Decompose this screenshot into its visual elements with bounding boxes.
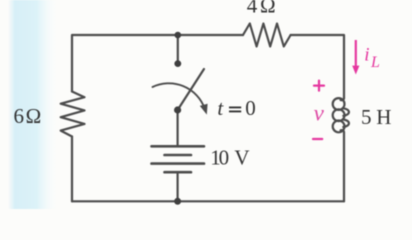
battery B1 plate long bottom — [152, 162, 205, 165]
svg-text:V: V — [234, 146, 249, 170]
wire right lower below inductor — [343, 133, 345, 201]
svg-text:L: L — [370, 54, 380, 71]
svg-text:i: i — [364, 45, 369, 66]
inductor L1 loop 2 — [333, 109, 345, 121]
svg-text:0: 0 — [245, 96, 256, 120]
battery B1 plate short — [165, 154, 192, 157]
switch arrow head — [200, 104, 208, 115]
wire top-left: left upper wire + top wire to R 4ohm — [72, 35, 243, 92]
node dot switch upper terminal — [174, 60, 181, 67]
switch blade — [178, 69, 204, 110]
svg-text:Ω: Ω — [260, 0, 276, 18]
svg-text:0: 0 — [219, 146, 230, 170]
inductor L1 exit curve — [341, 130, 344, 133]
wire switch top stub — [177, 35, 179, 64]
svg-text:v: v — [314, 100, 325, 125]
wire battery bottom lead — [177, 172, 179, 201]
node dot switch lower terminal — [174, 106, 181, 113]
switch arc — [153, 83, 205, 108]
wire left lower below R 6ohm — [71, 137, 73, 202]
inductor L1 crossover 2 — [343, 120, 349, 128]
wire battery top lead — [177, 110, 179, 146]
node dot bottom junction — [174, 198, 181, 205]
wire top-right + right wire to inductor — [291, 35, 344, 98]
battery B1 plate short bottom — [165, 171, 192, 174]
inductor L1 crossover 1 — [343, 108, 349, 116]
svg-text:H: H — [376, 105, 391, 129]
current arrow iL — [355, 40, 357, 67]
wire bottom — [72, 200, 344, 202]
inductor L1 loop 3 — [333, 121, 345, 133]
page sidebar tint — [8, 0, 60, 209]
resistor 4ohm zigzag — [243, 24, 291, 47]
voltage minus sign — [313, 138, 322, 140]
node dot top junction — [175, 32, 182, 39]
svg-text:6: 6 — [14, 104, 25, 128]
svg-text:5: 5 — [361, 105, 372, 129]
voltage plus sign — [314, 81, 324, 91]
svg-text:4: 4 — [247, 0, 258, 18]
svg-text:Ω: Ω — [26, 104, 42, 128]
inductor L1 loop 1 — [333, 98, 345, 110]
resistor 6ohm zigzag — [61, 92, 85, 137]
inductor L1 entry curve — [341, 98, 344, 101]
battery B1 plate long top — [152, 145, 205, 148]
